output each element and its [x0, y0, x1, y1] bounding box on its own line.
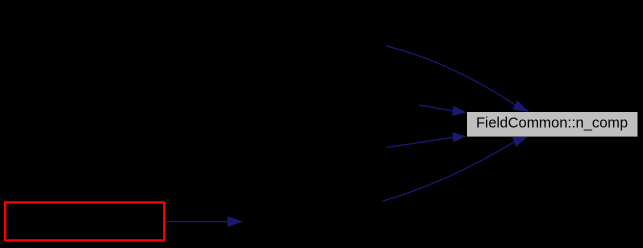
- svg-text:FieldCommon::n_comp: FieldCommon::n_comp: [476, 116, 628, 132]
